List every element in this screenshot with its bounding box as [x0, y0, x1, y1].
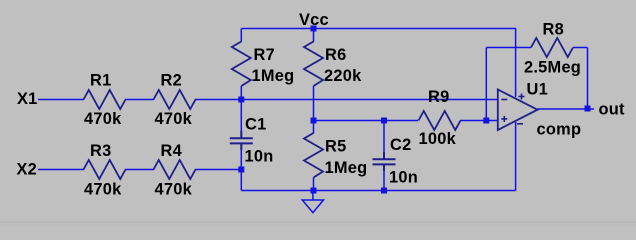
svg-text:2.5Meg: 2.5Meg — [524, 58, 581, 76]
svg-text:U1: U1 — [527, 81, 548, 99]
svg-text:R8: R8 — [543, 21, 564, 39]
svg-text:R4: R4 — [161, 142, 183, 160]
wire X1 to R1 — [38, 99, 84, 101]
node Vcc junction — [311, 26, 317, 32]
wire X2 to R3 — [38, 169, 84, 171]
svg-text:470k: 470k — [84, 181, 122, 199]
wire R8 left lead — [486, 47, 531, 49]
node X2 row / C1 bottom junction — [238, 167, 244, 173]
capacitor C1 — [230, 131, 253, 150]
wire top rail Vcc — [241, 28, 516, 30]
wire V- supply drop — [515, 122, 517, 191]
resistor R5 body — [304, 133, 323, 178]
wire R6 top lead — [313, 29, 315, 43]
wire R5 bottom lead — [313, 178, 315, 191]
wire R8 right drop to output — [587, 48, 589, 110]
wire opamp output to out — [538, 108, 595, 110]
op-amp U1 non-inverting input marker — [501, 116, 507, 122]
svg-text:R5: R5 — [325, 137, 346, 155]
wire R5 top lead — [313, 121, 315, 134]
svg-text:R6: R6 — [325, 46, 346, 64]
svg-text:comp: comp — [537, 121, 582, 139]
svg-text:R1: R1 — [90, 72, 111, 90]
svg-text:1Meg: 1Meg — [252, 67, 295, 85]
wire R6 bottom lead to node — [313, 86, 315, 121]
node C2 bottom junction — [381, 188, 387, 194]
svg-text:10n: 10n — [245, 147, 274, 165]
svg-text:1Meg: 1Meg — [325, 159, 368, 177]
svg-text:10n: 10n — [389, 168, 418, 186]
svg-text:470k: 470k — [155, 110, 193, 128]
node R7/C1/main rail junction — [238, 97, 244, 103]
resistor R1 — [84, 90, 126, 109]
wire R7 top lead — [240, 29, 242, 43]
resistor R3 — [84, 160, 126, 179]
wire C2 bottom lead — [383, 165, 385, 191]
svg-text:Vcc: Vcc — [299, 11, 329, 29]
svg-text:470k: 470k — [84, 110, 122, 128]
wire R1 to R2 — [125, 99, 154, 101]
resistor R2 — [154, 90, 196, 109]
node R5 bottom / ground junction — [311, 188, 317, 194]
wire R2 to opamp inverting input (main rail) — [195, 99, 498, 101]
svg-text:C2: C2 — [390, 136, 411, 154]
svg-text:R2: R2 — [161, 72, 182, 90]
svg-text:220k: 220k — [324, 67, 362, 85]
resistor R6 body — [304, 42, 323, 87]
wire second rail node to R9 — [314, 120, 419, 122]
resistor R9 — [419, 111, 461, 130]
svg-text:100k: 100k — [419, 130, 457, 148]
ground — [302, 191, 323, 213]
wire C1 bottom lead — [240, 144, 242, 191]
wire C1 top lead — [240, 100, 242, 138]
resistor R4 — [154, 160, 196, 179]
resistor R7 body — [232, 42, 251, 87]
wire R8 right lead — [573, 47, 588, 49]
svg-text:C1: C1 — [245, 116, 266, 134]
svg-text:X2: X2 — [17, 161, 38, 179]
wire C2 top lead — [383, 121, 385, 159]
op-amp U1 V+ supply pin marker — [519, 94, 525, 100]
wire R4 to C1 node — [195, 169, 241, 171]
node R6/R5 second rail junction — [311, 118, 317, 124]
wire R7 bottom lead — [240, 86, 242, 100]
wire R3 to R4 — [125, 169, 154, 171]
capacitor C2 — [373, 152, 396, 171]
svg-text:out: out — [599, 101, 626, 119]
svg-text:X1: X1 — [17, 90, 38, 108]
wire bottom rail — [241, 190, 515, 192]
op-amp U1 inverting input marker — [501, 99, 507, 101]
wire V+ supply drop — [515, 29, 517, 98]
svg-text:R7: R7 — [254, 46, 275, 64]
node feedback / + input junction — [483, 118, 489, 124]
resistor R8 — [531, 38, 573, 57]
wire R8 feedback drop to + input — [485, 48, 487, 121]
op-amp U1 V- supply pin marker — [517, 123, 523, 125]
op-amp U1 triangle — [498, 90, 538, 131]
node out junction — [585, 106, 591, 112]
node C2 top junction — [381, 118, 387, 124]
wire R9 to opamp non-inverting input — [460, 120, 498, 122]
svg-text:470k: 470k — [155, 181, 193, 199]
svg-text:R9: R9 — [428, 88, 449, 106]
svg-text:R3: R3 — [90, 142, 111, 160]
